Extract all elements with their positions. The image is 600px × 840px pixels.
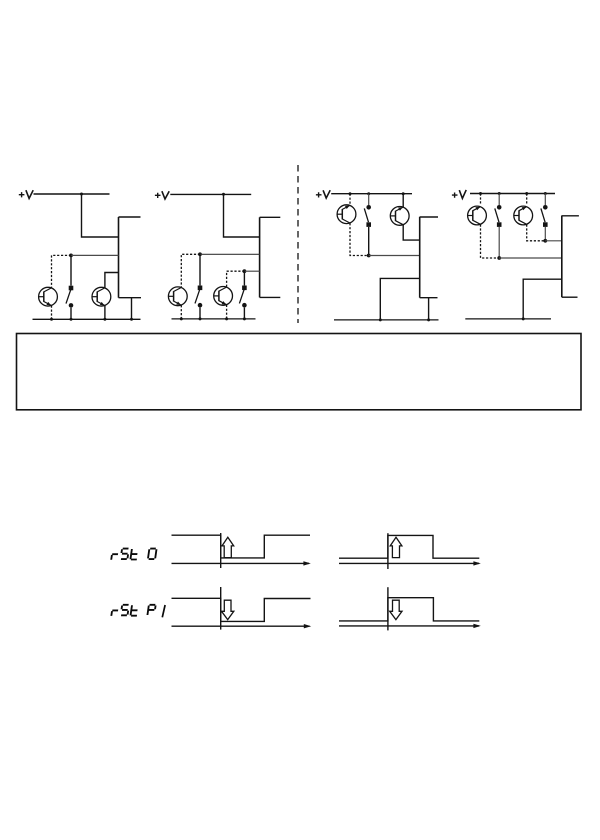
wire +V rail C1: [34, 193, 110, 195]
junction S6 on +V rail: [544, 192, 547, 195]
junction S4 on +V rail: [367, 192, 370, 195]
wire node B to switch S2: [199, 254, 201, 285]
axis line rst0 left: [172, 562, 310, 564]
switch S2: [195, 286, 202, 308]
output block bar C2: [259, 217, 261, 297]
junction Q8 on +V rail: [525, 192, 528, 195]
wire output to 0V rail C3: [428, 298, 430, 320]
net +V label C4: [452, 190, 466, 199]
arrow up rst0 left: [222, 537, 234, 557]
divider dashed line: [297, 165, 299, 323]
node D junction C3: [367, 254, 371, 258]
switch S6: [541, 205, 548, 227]
transistor Q8: [514, 206, 533, 225]
junction Q1 on rail: [50, 318, 53, 321]
junction Q2 on rail: [103, 318, 106, 321]
wire dashed Q4 emitter to rail: [226, 305, 228, 319]
label rSt 0: [111, 549, 156, 560]
junction Q6 on +V rail: [402, 192, 405, 195]
wire output stub top C1: [119, 216, 141, 218]
wire +V to switch S5: [498, 194, 500, 206]
wire 0V rail C3: [334, 319, 439, 321]
wire node E to block C4: [499, 257, 562, 259]
wire +V to Q6: [402, 194, 404, 208]
wire node A to switch S1: [70, 255, 72, 285]
wire dashed node B to Q3: [181, 254, 200, 287]
junction Q4 on rail: [225, 317, 228, 320]
wire node C to switch S3: [243, 271, 245, 285]
wire output stub bottom C4: [562, 296, 578, 298]
wire +V to output block C2: [224, 194, 260, 237]
wire Q6 collector to block C3: [403, 225, 420, 240]
wire dashed +V to Q5: [349, 194, 351, 206]
wire dashed +V to Q8: [526, 194, 528, 205]
wire +V rail C4: [470, 193, 555, 195]
output block bar C4: [561, 216, 563, 298]
wire dashed Q1 emitter to rail: [51, 306, 53, 320]
wire 0V rail C1: [33, 318, 141, 320]
transistor Q7: [468, 206, 487, 225]
net +V label C2: [155, 191, 169, 199]
wire dashed node C to Q4: [227, 271, 245, 287]
marker line rstP1 left: [220, 587, 222, 630]
junction Q5 on +V rail: [349, 192, 352, 195]
wire +V to switch S6: [544, 194, 546, 206]
wire S6 to node F: [544, 227, 546, 241]
wire output stub top C4: [562, 215, 579, 217]
axis line rstP1 left: [172, 625, 310, 627]
junction S2 on rail: [199, 317, 202, 320]
transistor Q4: [214, 287, 233, 306]
node B junction C2: [198, 252, 202, 256]
junction S3 on rail: [243, 317, 246, 320]
junction Q7 on +V rail: [479, 192, 482, 195]
axis arrowhead rst0 left: [303, 561, 310, 565]
waveform rstP1 right: [339, 598, 479, 621]
output block bar C1: [118, 217, 120, 298]
wire output stub bottom C2: [260, 296, 281, 298]
wire dashed Q7 to node E: [481, 225, 500, 259]
output block bar C3: [419, 217, 421, 298]
waveform rst0 left: [172, 535, 311, 558]
transistor Q1: [39, 287, 58, 306]
junction on +V rail C1: [80, 193, 83, 196]
wire S4 to node D: [368, 227, 370, 256]
wire output to 0V rail C1: [131, 298, 133, 320]
wire +V rail C2: [170, 193, 251, 195]
transistor Q2: [92, 287, 111, 306]
wire dashed Q5 to node D: [350, 223, 369, 255]
wire +V to output block C1: [82, 194, 119, 237]
axis line rst0 right: [339, 562, 479, 564]
junction on +V rail C2: [222, 193, 225, 196]
wire 0V rail C4: [465, 318, 551, 320]
wire output stub top C3: [420, 216, 438, 218]
wire S3 to rail: [243, 308, 245, 319]
junction C1 output on rail: [130, 318, 133, 321]
arrow down rstP1 left: [222, 600, 234, 619]
wire block to 0V rail C4: [523, 279, 562, 319]
transistor Q5: [337, 205, 356, 224]
wire dashed Q8 to node F: [527, 225, 546, 241]
net +V label C1: [19, 190, 33, 198]
wire output stub bottom C1: [119, 297, 142, 299]
junction output on rail C3: [427, 318, 430, 321]
wire node B to block C2: [200, 253, 260, 255]
empty annotation box: [17, 334, 582, 410]
switch S5: [495, 205, 502, 227]
switch S1: [66, 286, 73, 308]
wire S2 to rail: [199, 308, 201, 319]
wire node F to block C4: [545, 240, 562, 242]
junction S5 on +V rail: [498, 192, 501, 195]
wire +V to switch S4: [368, 194, 370, 206]
junction Q3 on rail: [180, 317, 183, 320]
node C junction C2: [243, 269, 247, 273]
axis arrowhead rst0 right: [473, 561, 480, 565]
switch S4: [364, 205, 371, 227]
wire node C to block C2: [244, 270, 259, 272]
waveform rstP1 left: [172, 598, 311, 621]
junction S1 on rail: [70, 318, 73, 321]
wire node A to block C1: [71, 254, 119, 256]
axis line rstP1 right: [339, 625, 479, 627]
marker line rst0 right: [387, 533, 389, 569]
wire dashed node A to Q1: [52, 255, 72, 287]
axis arrowhead rstP1 left: [304, 624, 311, 628]
wire S1 to rail: [70, 308, 72, 320]
switch S3: [239, 286, 246, 308]
junction block-rail C4: [522, 317, 525, 320]
wire Q2 collector to block C1: [105, 273, 119, 289]
arrow up rst0 right: [390, 537, 402, 557]
marker line rst0 left: [220, 533, 222, 568]
waveform rst0 right: [339, 535, 479, 558]
node A junction C1: [69, 254, 73, 258]
junction block-rail C3: [379, 318, 382, 321]
node E junction C4: [497, 256, 501, 260]
arrow down rstP1 right: [390, 600, 402, 619]
wire block to 0V rail C3: [380, 278, 419, 320]
transistor Q3: [168, 287, 187, 306]
net +V label C3: [316, 190, 330, 198]
wire +V rail C3: [331, 193, 412, 195]
node F junction C4: [543, 239, 547, 243]
axis arrowhead rstP1 right: [473, 624, 480, 628]
label rSt P1: [111, 605, 165, 618]
wire dashed +V to Q7: [480, 194, 482, 205]
wire output stub top C2: [260, 216, 281, 218]
wire S5 to node E: [498, 227, 500, 258]
marker line rstP1 right: [387, 587, 389, 630]
wire Q2 emitter to rail: [104, 306, 106, 320]
wire output stub bottom C3: [420, 297, 438, 299]
wire node D to block C3: [369, 255, 420, 257]
transistor Q6: [390, 207, 409, 226]
wire 0V rail C2: [172, 318, 256, 320]
wire dashed Q3 emitter to rail: [180, 305, 182, 319]
